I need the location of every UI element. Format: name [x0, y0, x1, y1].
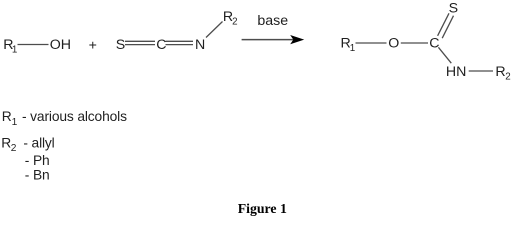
svg-text:O: O: [388, 36, 399, 52]
wire: bond N-R2: [469, 70, 493, 72]
reaction arrow shaft: [242, 39, 295, 41]
svg-text:R: R: [495, 64, 505, 80]
svg-text:HN: HN: [446, 64, 467, 80]
svg-text:+: +: [89, 37, 97, 53]
reaction arrow head: [290, 35, 304, 44]
svg-text:- allyl: - allyl: [23, 135, 54, 150]
wire: bond N-R2 diagonal: [206, 22, 223, 38]
svg-text:base: base: [257, 13, 288, 29]
svg-text:R: R: [2, 109, 12, 124]
svg-text:1: 1: [12, 117, 18, 128]
wire: double bond C=N: [166, 40, 194, 42]
svg-text:C: C: [429, 36, 439, 52]
svg-text:Figure 1: Figure 1: [238, 201, 287, 216]
svg-text:1: 1: [12, 45, 17, 56]
svg-text:1: 1: [350, 43, 355, 54]
svg-text:- Ph: - Ph: [25, 153, 50, 168]
wire: double bond S=C: [125, 40, 155, 42]
svg-text:- various alcohols: - various alcohols: [22, 109, 127, 124]
wire: double bond C=S diagonal: [438, 13, 449, 36]
svg-text:2: 2: [11, 143, 17, 154]
svg-text:- Bn: - Bn: [25, 168, 50, 183]
svg-text:OH: OH: [50, 37, 71, 53]
svg-text:C: C: [156, 37, 166, 53]
svg-text:S: S: [116, 37, 125, 53]
wire: bond O-C: [401, 42, 428, 44]
wire: bond C-N diagonal: [438, 47, 451, 63]
svg-text:2: 2: [505, 71, 510, 82]
svg-text:S: S: [449, 1, 458, 17]
wire: bond R1-OH: [18, 44, 49, 46]
svg-text:N: N: [195, 37, 205, 53]
svg-text:R: R: [1, 135, 11, 150]
wire: bond R1-O: [356, 42, 387, 44]
svg-text:2: 2: [232, 17, 237, 28]
